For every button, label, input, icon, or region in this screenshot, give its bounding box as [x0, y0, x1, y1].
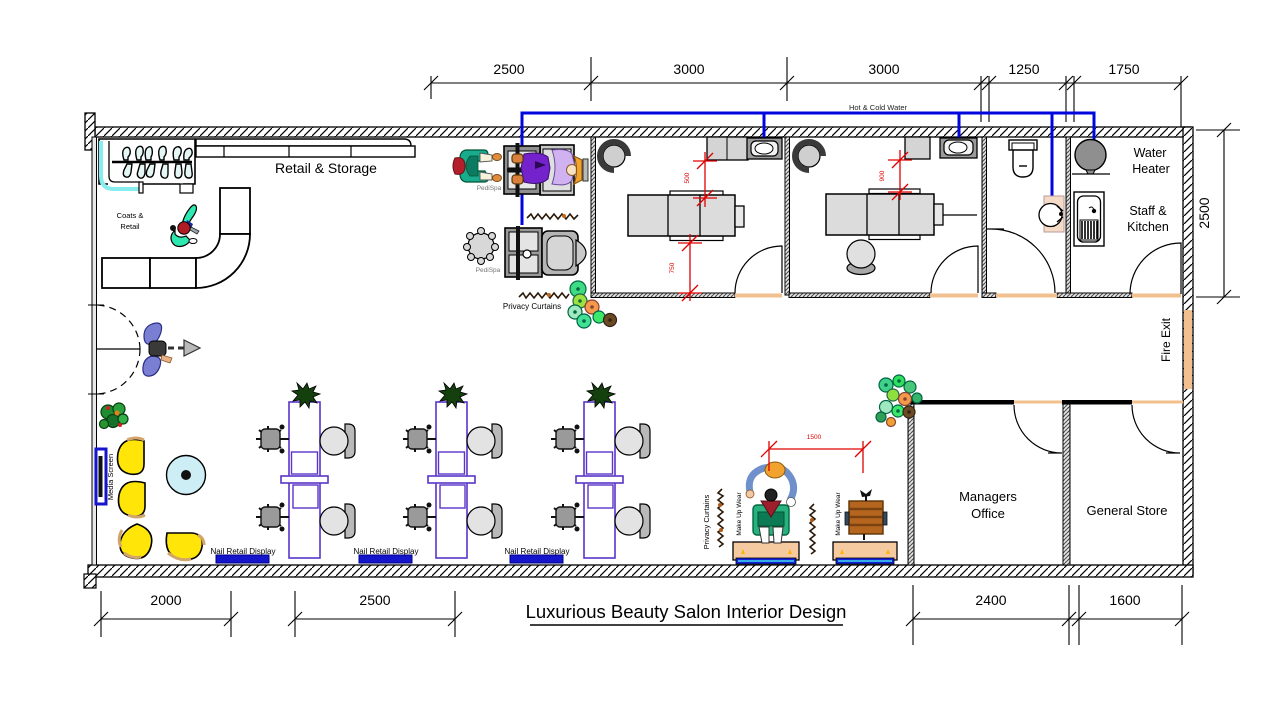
- svg-text:Staff &: Staff &: [1129, 204, 1167, 218]
- desk horizontal counter: [102, 258, 150, 288]
- massage table room 2: [869, 189, 920, 194]
- svg-text:Heater: Heater: [1132, 162, 1170, 176]
- kitchen sink: [1074, 192, 1104, 246]
- svg-text:1600: 1600: [1109, 592, 1140, 608]
- entrance jamb stubs: [88, 305, 104, 394]
- client chair 1b: [345, 504, 355, 538]
- svg-text:2500: 2500: [493, 61, 524, 77]
- WC bowl: [1013, 150, 1033, 177]
- BIG PLANT near managers office: [876, 375, 922, 427]
- svg-text:1750: 1750: [1108, 61, 1139, 77]
- svg-text:2400: 2400: [975, 592, 1006, 608]
- door threshold treatment room 2: [930, 294, 978, 298]
- INTERIOR PARTITIONS: [591, 137, 1192, 565]
- water heater: [1075, 140, 1106, 171]
- red dim 1500 makeup: [761, 441, 871, 473]
- general store door threshold: [1132, 401, 1183, 404]
- yellow chair 1: [118, 440, 145, 475]
- red dim 900 room 2: [888, 150, 912, 200]
- partition treatment room 1 / 2: [785, 137, 790, 295]
- makeup desk 1: [733, 542, 799, 560]
- svg-text:Water: Water: [1134, 146, 1167, 160]
- partition treatment room 2 / toilet: [982, 137, 987, 295]
- direction arrow: [168, 347, 184, 350]
- stool room 2 (bottom): [847, 262, 875, 275]
- closet bottom tabs: [139, 182, 143, 193]
- makeup chair 2 (wooden): [849, 501, 883, 534]
- dim 2500: [295, 618, 455, 620]
- pipe drop to room2 sink: [958, 113, 961, 150]
- MAKEUP AREA: [718, 434, 897, 564]
- svg-text:Luxurious Beauty Salon Interio: Luxurious Beauty Salon Interior Design: [526, 601, 847, 622]
- left wall: [92, 137, 97, 565]
- pedispa attendant: [460, 150, 488, 182]
- nail table 1: [289, 402, 320, 558]
- svg-text:PediSpa: PediSpa: [476, 267, 501, 274]
- svg-text:General Store: General Store: [1087, 503, 1168, 518]
- wash basin: [1044, 196, 1064, 232]
- tick marks: [424, 76, 1188, 90]
- makeup chair 1 with client: [753, 505, 789, 535]
- ENTRANCE PERSON: [143, 323, 200, 376]
- door arc toilet room: [986, 229, 1055, 293]
- BLUE WATER PIPES: [522, 113, 1094, 225]
- sink unit room 1: [747, 138, 782, 159]
- BOTTOM DIMENSIONS: [94, 585, 1189, 645]
- managers office door threshold: [1014, 401, 1062, 404]
- svg-text:Coats &: Coats &: [117, 211, 144, 220]
- privacy curtain squiggle (between stations): [527, 214, 578, 219]
- door threshold toilet: [996, 294, 1057, 298]
- door arc treatment room 2: [931, 246, 978, 293]
- wall managers office / general store: [1063, 403, 1070, 565]
- svg-text:Privacy Curtains: Privacy Curtains: [503, 302, 561, 311]
- COAT RACK AREA: [99, 139, 195, 193]
- door arc treatment room 1: [735, 246, 782, 293]
- hand: [161, 355, 172, 363]
- red dim 750 room 1: [678, 234, 702, 301]
- bottom-left wall end cap: [84, 574, 96, 588]
- counter room 2: [905, 137, 930, 159]
- svg-text:Make Up Wear: Make Up Wear: [736, 492, 743, 536]
- TOILET ROOM: [1009, 140, 1064, 232]
- managers office top wall: [908, 400, 1014, 405]
- pipe drop to toilet basin: [1051, 113, 1054, 212]
- WAITING AREA: [96, 403, 206, 560]
- PEDISPA AREA: [453, 143, 588, 298]
- RECEPTION DESK: [102, 188, 250, 288]
- makeup artist leaning: [749, 467, 793, 500]
- yellow chair 4: [166, 533, 202, 560]
- entrance door swing (dashed): [97, 305, 140, 394]
- svg-text:1250: 1250: [1008, 61, 1039, 77]
- plant by wall: [100, 403, 129, 429]
- svg-text:3000: 3000: [868, 61, 899, 77]
- svg-text:Hot & Cold Water: Hot & Cold Water: [849, 103, 908, 112]
- hanger rod: [112, 161, 192, 164]
- TOP DIMENSIONS: [424, 57, 1188, 127]
- svg-text:Office: Office: [971, 506, 1005, 521]
- plant on table 1: [292, 383, 320, 408]
- partition pedispa / treatment room 1: [591, 137, 596, 295]
- TREATMENT ROOM 2: [795, 137, 977, 275]
- coat closet box: [99, 139, 195, 184]
- upper wing arm: [144, 323, 162, 344]
- WC tank: [1009, 140, 1037, 150]
- svg-text:Nail Retail Display: Nail Retail Display: [505, 547, 570, 556]
- counter room 1: [707, 137, 748, 160]
- door arc general store: [1132, 405, 1180, 453]
- hangers (clothes on rod): [123, 146, 192, 178]
- svg-text:Privacy Curtains: Privacy Curtains: [702, 494, 711, 549]
- svg-text:Retail & Storage: Retail & Storage: [275, 160, 377, 176]
- nail retail display 1: [216, 555, 269, 563]
- STAFF KITCHEN: [1072, 140, 1110, 247]
- pedispa station 1 foot tub: [504, 146, 540, 194]
- operator chair 1a: [256, 425, 289, 454]
- pedispa station 2 chair: [542, 231, 578, 275]
- red dim 500 room 1: [693, 152, 717, 207]
- entrance door leaf: [97, 348, 140, 350]
- dim 2000: [101, 618, 231, 620]
- bottom wall of top rooms: segments: [591, 293, 735, 298]
- privacy curtain squiggle vertical 2: [810, 504, 815, 554]
- svg-text:1500: 1500: [807, 434, 822, 441]
- pedispa station 1 chair: [540, 145, 574, 195]
- lower wing arm: [143, 356, 161, 376]
- makeup desk 2: [833, 542, 897, 560]
- shelf lower units: [196, 146, 415, 157]
- door arc staff kitchen: [1130, 243, 1181, 294]
- ROOM LABELS: [106, 146, 1173, 556]
- svg-text:PediSpa: PediSpa: [477, 185, 502, 192]
- privacy curtain squiggle (below pedispa): [519, 293, 569, 298]
- partition toilet / staff kitchen: [1066, 137, 1071, 295]
- TITLE: [526, 601, 847, 625]
- door threshold treatment room 1: [735, 294, 782, 298]
- svg-text:Make Up Wear: Make Up Wear: [835, 492, 842, 536]
- round glass table: [167, 456, 206, 495]
- yellow chair 3: [120, 524, 152, 559]
- svg-text:Media Screen: Media Screen: [106, 454, 115, 500]
- svg-text:750: 750: [669, 262, 676, 273]
- client chair 1a: [345, 424, 355, 458]
- door arc managers office: [1014, 405, 1062, 453]
- stool room 2 (top): [798, 145, 820, 167]
- svg-text:Nail Retail Display: Nail Retail Display: [211, 547, 276, 556]
- WALLS: [84, 113, 1193, 588]
- massage table room 1: [670, 191, 723, 196]
- desk corner piece: [196, 234, 250, 288]
- svg-text:Kitchen: Kitchen: [1127, 220, 1169, 234]
- pipe drop to room1 sink: [763, 113, 766, 150]
- svg-text:500: 500: [684, 172, 691, 183]
- sink unit room 2: [940, 138, 977, 158]
- dim 1600: [1069, 618, 1182, 620]
- svg-text:2500: 2500: [1196, 197, 1212, 228]
- towel bar room 2: [943, 214, 977, 216]
- hot & cold water main pipe: [522, 113, 1094, 225]
- stool room 1: [603, 145, 625, 167]
- nail retail display 2: [359, 555, 412, 563]
- TREATMENT ROOM 1: [600, 137, 782, 301]
- top-left wall end cap: [85, 113, 95, 150]
- privacy curtain squiggle vertical 1: [718, 489, 723, 547]
- receptionist person: [170, 205, 199, 247]
- scalloped side table: [468, 233, 494, 259]
- operator chair 1b: [256, 503, 289, 532]
- shelf upper rail: [196, 139, 411, 146]
- svg-text:900: 900: [879, 170, 886, 181]
- dim 2400: [913, 618, 1069, 620]
- svg-text:2500: 2500: [359, 592, 390, 608]
- nail retail display 3: [510, 555, 563, 563]
- right wall: [1183, 127, 1193, 574]
- svg-text:3000: 3000: [673, 61, 704, 77]
- managers office left wall: [908, 403, 914, 565]
- svg-text:2000: 2000: [150, 592, 181, 608]
- dimension line top: [431, 82, 1181, 84]
- yellow chair 2: [119, 482, 146, 517]
- general store top wall: [1062, 400, 1132, 405]
- body/head: [149, 341, 166, 356]
- svg-text:Fire Exit: Fire Exit: [1159, 317, 1173, 362]
- client lying in pedispa 1: [507, 168, 541, 172]
- pedispa station 2 foot tub: [505, 228, 542, 277]
- top wall: [95, 127, 1191, 137]
- svg-text:Retail: Retail: [120, 222, 140, 231]
- svg-text:Managers: Managers: [959, 489, 1017, 504]
- PLANT CLUSTER below pedispa: [568, 281, 617, 328]
- media screen: [96, 449, 106, 504]
- door threshold staff room: [1132, 294, 1181, 298]
- RETAIL SHELF: [196, 139, 415, 157]
- RIGHT DIMENSION 2500: [1196, 123, 1240, 304]
- DOOR ARCS: [88, 229, 1181, 453]
- cyan trim: [101, 141, 140, 189]
- NAIL STATIONS: [256, 383, 355, 558]
- bottom wall: [88, 565, 1193, 577]
- desk vertical counter: [220, 188, 250, 234]
- nail table 3: [551, 383, 650, 558]
- svg-text:Nail Retail Display: Nail Retail Display: [354, 547, 419, 556]
- fire exit door on right wall: [1184, 310, 1192, 389]
- nail table 2: [403, 383, 502, 558]
